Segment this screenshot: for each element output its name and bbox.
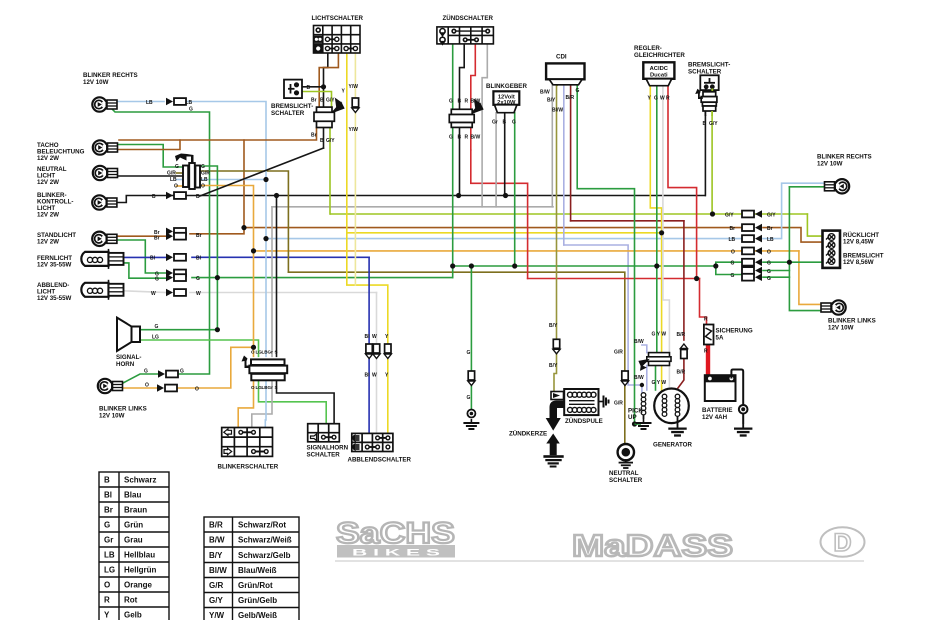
svg-text:BLINKER LINKS: BLINKER LINKS — [99, 406, 147, 413]
svg-text:G: G — [196, 276, 200, 282]
svg-text:G/Y: G/Y — [209, 596, 223, 605]
svg-text:SIGNALHORN: SIGNALHORN — [307, 445, 349, 452]
svg-text:B/W: B/W — [471, 99, 481, 105]
wire LB instrument link — [200, 179, 266, 181]
wire B/R cdi drop — [570, 85, 572, 221]
wire O instrument drop — [198, 186, 254, 357]
wire B/W cdi drop — [551, 85, 553, 207]
wire G double input — [716, 266, 742, 275]
wire W dimmer drop — [376, 293, 378, 434]
lamp blinker rechts left — [92, 97, 117, 111]
wire B/W zuendschalter drop — [482, 44, 487, 207]
svg-text:Schwarz/Weiß: Schwarz/Weiß — [238, 536, 292, 545]
svg-text:12V 8,56W: 12V 8,56W — [843, 259, 874, 266]
svg-text:Ducati: Ducati — [650, 73, 668, 79]
spark plug ZUENDKERZE — [543, 401, 564, 468]
svg-text:G: G — [467, 395, 471, 401]
svg-text:G: G — [189, 107, 193, 113]
svg-text:SIGNAL-: SIGNAL- — [116, 354, 141, 361]
connector BR inline — [680, 344, 687, 359]
svg-text:B/Y: B/Y — [549, 363, 558, 369]
wire B bremslicht-schalter left link — [302, 86, 324, 88]
connector G spark — [468, 371, 475, 386]
svg-text:R: R — [465, 99, 469, 105]
wire B/W generator connector riser — [642, 345, 647, 353]
connector pair Br double — [166, 228, 186, 236]
svg-text:Br: Br — [154, 236, 160, 242]
svg-text:G: G — [155, 277, 159, 283]
svg-text:LB: LB — [104, 551, 115, 560]
wire G cdi drop — [577, 85, 634, 424]
svg-text:Bl: Bl — [365, 373, 371, 379]
svg-text:LB: LB — [146, 100, 153, 106]
svg-text:REGLER-: REGLER- — [634, 45, 662, 52]
lamp tacho — [93, 140, 118, 154]
wire G/R instrument stub — [177, 172, 184, 174]
wire O blinker links riser — [177, 347, 254, 388]
svg-text:O: O — [195, 387, 199, 393]
wire Br brown standlicht segment — [110, 235, 166, 237]
svg-text:G: G — [731, 261, 735, 267]
svg-text:G: G — [180, 369, 184, 375]
lamp abblendlicht — [81, 280, 123, 300]
wire G regler drop — [656, 86, 658, 353]
svg-text:Bl: Bl — [196, 256, 202, 262]
wire Bl/W lavender run — [564, 245, 642, 392]
wire G fernlicht branch — [115, 263, 166, 278]
wire LB blinker rechts to riser — [182, 102, 266, 357]
wire O orange bus — [254, 250, 799, 252]
svg-text:ABBLENDSCHALTER: ABBLENDSCHALTER — [348, 457, 412, 464]
svg-text:LICHTSCHALTER: LICHTSCHALTER — [312, 15, 364, 22]
svg-text:LG: LG — [104, 566, 115, 575]
lamp blinker rechts right — [825, 179, 850, 193]
svg-text:G: G — [512, 120, 516, 126]
wire LB right riser to blinker rechts — [763, 183, 828, 238]
svg-text:SCHALTER: SCHALTER — [271, 110, 305, 117]
connector pair O right — [742, 247, 762, 255]
svg-text:S: S — [275, 385, 278, 390]
connector pair G double right — [742, 267, 762, 275]
wire LB instrument stub — [177, 179, 184, 181]
svg-text:G/Y: G/Y — [725, 213, 734, 219]
svg-text:BLINKERSCHALTER: BLINKERSCHALTER — [218, 464, 279, 471]
connector GR inline — [621, 371, 628, 386]
svg-text:Gelb: Gelb — [124, 611, 142, 620]
svg-text:G/Y: G/Y — [767, 213, 776, 219]
svg-text:12V 2W: 12V 2W — [37, 155, 59, 162]
svg-text:D: D — [833, 529, 851, 557]
wire black bremslicht-schalter right drop — [704, 116, 706, 196]
wire B relay drop — [276, 196, 278, 357]
wire Br brown bus right — [244, 227, 742, 229]
svg-text:B: B — [320, 98, 324, 104]
svg-text:B: B — [152, 194, 156, 200]
svg-text:12V 2W: 12V 2W — [37, 179, 59, 186]
wire G/Y bus — [331, 213, 808, 215]
connector pair GY right — [742, 210, 762, 218]
wire O relay to blinkerschalter — [238, 380, 253, 428]
legend table 1 — [99, 472, 169, 620]
wire Gr blinkgeber drop — [495, 113, 497, 207]
wire Gr relay drop — [271, 207, 273, 356]
svg-text:B/R: B/R — [677, 332, 686, 338]
connector pair G blinker links — [158, 370, 178, 378]
svg-text:NEUTRAL: NEUTRAL — [609, 470, 639, 477]
svg-text:B: B — [104, 476, 110, 485]
switch NEUTRAL SCHALTER — [618, 444, 634, 462]
wire G generator link — [655, 366, 657, 391]
wire LB blinker rechts line — [110, 101, 164, 103]
wire G/R olive riser — [198, 171, 288, 272]
connector YW inline — [352, 98, 359, 113]
svg-text:Bl: Bl — [104, 491, 112, 500]
relay BLINKGEBER box — [493, 91, 519, 112]
wire R thick fuse to battery — [706, 346, 710, 375]
svg-text:SICHERUNG: SICHERUNG — [716, 328, 753, 335]
svg-text:Bl: Bl — [365, 334, 371, 340]
svg-text:B/R: B/R — [209, 521, 223, 530]
svg-text:CDI: CDI — [556, 54, 567, 61]
svg-text:LB: LB — [186, 100, 193, 106]
ground spark green — [463, 419, 479, 429]
wire G blinkgeber drop — [514, 113, 516, 266]
connector pair O blinker links — [157, 384, 177, 392]
svg-text:B: B — [503, 120, 507, 126]
svg-text:ZÜNDKERZE: ZÜNDKERZE — [509, 431, 547, 438]
ground battery — [734, 424, 752, 436]
connector pair LB right — [742, 235, 762, 243]
wire G spark ground drop — [470, 266, 472, 371]
svg-text:LB: LB — [767, 237, 774, 243]
speaker signal horn — [117, 318, 140, 351]
svg-text:G: G — [731, 273, 735, 279]
ground neutral schalter — [619, 459, 633, 468]
wire LB bus — [266, 238, 742, 240]
wire code labels — [144, 84, 776, 407]
svg-text:G: G — [104, 521, 110, 530]
svg-text:O: O — [201, 184, 205, 190]
wire Br tacho stub — [110, 140, 180, 150]
svg-text:BLINKER RECHTS: BLINKER RECHTS — [817, 154, 872, 161]
svg-text:BREMSLICHT-: BREMSLICHT- — [688, 62, 730, 69]
svg-text:Schwarz/Rot: Schwarz/Rot — [238, 521, 286, 530]
svg-text:UP: UP — [628, 414, 637, 421]
wire G/Y brake switch link — [302, 92, 332, 108]
wire G/Y right tail drop — [807, 214, 822, 236]
wire B/R maroon bus — [571, 220, 684, 222]
connector pair G double — [166, 269, 186, 277]
svg-text:Gr: Gr — [268, 385, 274, 390]
svg-text:B/Y: B/Y — [547, 98, 556, 104]
svg-text:W: W — [151, 291, 156, 297]
svg-text:Blau: Blau — [124, 491, 141, 500]
svg-text:Orange: Orange — [124, 581, 153, 590]
svg-text:12V 10W: 12V 10W — [828, 325, 854, 332]
svg-text:Gelb/Weiß: Gelb/Weiß — [238, 611, 277, 620]
coil ZUENDSPULE — [551, 389, 599, 415]
wire G tacho line — [110, 145, 183, 168]
connector brake component — [314, 100, 344, 128]
svg-text:BREMSLICHT-: BREMSLICHT- — [271, 103, 313, 110]
svg-text:12V 10W: 12V 10W — [83, 79, 109, 86]
svg-text:Blau/Weiß: Blau/Weiß — [238, 566, 277, 575]
svg-text:B/W: B/W — [634, 339, 644, 345]
wire Br brown connector to bus — [190, 140, 244, 234]
svg-text:5A: 5A — [716, 335, 724, 342]
svg-text:12V 35-55W: 12V 35-55W — [37, 262, 72, 269]
wire B/R connector to generator — [678, 358, 684, 388]
svg-text:Rot: Rot — [124, 596, 138, 605]
wire G horn line — [140, 329, 217, 331]
wire R fuse drop — [700, 279, 707, 325]
wire gray B/W bus — [272, 206, 553, 208]
wire W regler drop — [663, 86, 670, 353]
wire B brake diagonal — [200, 148, 324, 196]
svg-text:BATTERIE: BATTERIE — [702, 407, 732, 414]
svg-text:ACIDC: ACIDC — [650, 66, 669, 72]
svg-text:G: G — [467, 350, 471, 356]
switch BREMSLICHT-SCHALTER left — [284, 80, 302, 99]
svg-text:R: R — [104, 596, 110, 605]
wire G zuendschalter drop — [452, 44, 454, 278]
svg-text:B: B — [458, 135, 462, 141]
svg-text:Br: Br — [767, 226, 773, 232]
lamp standlicht — [92, 232, 117, 246]
svg-text:LB: LB — [170, 177, 177, 183]
wire black main bus B — [110, 196, 705, 203]
svg-text:SCHALTER: SCHALTER — [307, 452, 341, 459]
svg-text:B: B — [307, 85, 311, 91]
connector pair W — [166, 289, 186, 297]
switch ZUENDSCHALTER — [437, 27, 494, 44]
wire Br lichtschalter drop — [319, 53, 338, 107]
svg-text:G/R: G/R — [201, 171, 210, 177]
svg-text:GENERATOR: GENERATOR — [653, 442, 692, 449]
svg-text:B: B — [458, 99, 462, 105]
wire Bl/W cdi drop — [563, 85, 565, 245]
lamp cluster ruecklicht bremslicht — [823, 231, 841, 268]
svg-text:Br: Br — [196, 233, 202, 239]
svg-text:G: G — [576, 88, 580, 94]
wire W generator link — [668, 366, 670, 394]
wire G/R olive bus — [288, 272, 624, 444]
svg-text:S: S — [275, 350, 278, 355]
svg-text:HORN: HORN — [116, 361, 135, 368]
wire G blinker rechts stub — [789, 186, 827, 188]
svg-text:B/W: B/W — [209, 536, 225, 545]
wire Y yellow bus — [347, 232, 662, 234]
wire B relay to horn switch — [277, 380, 335, 424]
svg-text:B/W: B/W — [471, 135, 481, 141]
svg-text:W: W — [372, 373, 377, 379]
svg-text:O: O — [251, 350, 255, 355]
connector zuendschalter component — [449, 101, 482, 128]
wire Bl blue bus — [192, 256, 369, 258]
svg-text:SCHALTER: SCHALTER — [609, 477, 643, 484]
connector instrument cluster — [175, 154, 200, 190]
svg-text:12V 10W: 12V 10W — [817, 161, 843, 168]
wire Br neutral stub — [112, 175, 183, 177]
svg-text:R: R — [704, 349, 708, 355]
wire B/W generator link — [646, 366, 648, 391]
svg-text:Gr: Gr — [268, 350, 274, 355]
legend table 2 — [204, 517, 299, 620]
svg-text:SCHALTER: SCHALTER — [688, 69, 722, 76]
wire G/Y bremslicht right drop — [712, 116, 713, 214]
pickup coil — [635, 393, 646, 424]
svg-text:Grün/Gelb: Grün/Gelb — [238, 596, 277, 605]
svg-text:B: B — [320, 138, 324, 144]
wire G tail light feed — [763, 261, 823, 263]
svg-text:B: B — [703, 121, 707, 127]
svg-text:O: O — [174, 184, 178, 190]
svg-text:G: G — [144, 369, 148, 375]
lamp blinker links right — [821, 300, 846, 314]
svg-text:Bl/W: Bl/W — [552, 108, 563, 114]
svg-text:LG: LG — [152, 335, 159, 341]
svg-text:Br: Br — [104, 506, 113, 515]
wire B/Y cdi drop — [557, 85, 558, 339]
svg-text:12V 2W: 12V 2W — [37, 212, 59, 219]
svg-text:12V 10W: 12V 10W — [99, 413, 125, 420]
svg-text:Schwarz: Schwarz — [124, 476, 156, 485]
svg-text:G: G — [767, 261, 771, 267]
svg-text:G: G — [449, 135, 453, 141]
svg-text:Y: Y — [104, 611, 110, 620]
svg-text:B/R: B/R — [677, 370, 686, 376]
svg-text:BLINKGEBER: BLINKGEBER — [486, 83, 527, 90]
relay blinker flasher block — [242, 356, 288, 381]
svg-text:Grau: Grau — [124, 536, 143, 545]
ground pickup — [636, 419, 652, 429]
svg-text:G/R: G/R — [614, 350, 623, 356]
svg-text:G Y W: G Y W — [652, 380, 667, 386]
wire G double lower right — [763, 276, 789, 278]
wire G tail light branch — [716, 262, 742, 266]
wire Br brake light horizontal — [119, 128, 317, 141]
svg-text:G: G — [767, 269, 771, 275]
wire LG horn line — [140, 340, 259, 356]
svg-text:B/W: B/W — [634, 375, 644, 381]
wire G instrument to horn — [198, 166, 217, 330]
svg-text:W: W — [372, 334, 377, 340]
wire B blinkgeber drop — [504, 113, 506, 196]
svg-text:BLINKER LINKS: BLINKER LINKS — [828, 318, 876, 325]
svg-text:O: O — [104, 581, 110, 590]
wire O right to blinker links — [799, 251, 823, 305]
wire O instrument stub — [177, 185, 184, 187]
svg-text:ZÜNDSCHALTER: ZÜNDSCHALTER — [443, 15, 494, 22]
svg-text:G/R: G/R — [209, 581, 223, 590]
wire G blinker rechts riser — [110, 107, 210, 374]
svg-text:G/Y: G/Y — [326, 138, 335, 144]
wire G blinker rechts right vertical — [789, 187, 823, 311]
labels component names — [37, 15, 884, 484]
wire B lichtschalter to brake comp — [324, 53, 328, 107]
svg-text:Br: Br — [730, 226, 736, 232]
lamp blinker links left — [98, 379, 123, 393]
wire B brake comp drop — [323, 128, 325, 149]
connector pair Bl — [166, 253, 186, 261]
svg-text:Hellblau: Hellblau — [124, 551, 155, 560]
svg-text:O: O — [731, 250, 735, 256]
svg-text:LB: LB — [729, 237, 736, 243]
wire R red bus — [528, 278, 700, 280]
ground generator — [668, 424, 686, 436]
svg-text:Y/W: Y/W — [349, 127, 359, 133]
generator — [654, 389, 689, 425]
svg-text:12V 8,45W: 12V 8,45W — [843, 239, 874, 246]
svg-text:12V 2W: 12V 2W — [37, 239, 59, 246]
svg-text:B/W: B/W — [540, 90, 550, 96]
battery BATTERIE — [705, 370, 748, 425]
svg-text:Bl: Bl — [150, 256, 156, 262]
wire G/Y brake comp drop — [329, 128, 331, 215]
connector pair B bus — [166, 192, 186, 200]
svg-text:G Y W: G Y W — [652, 332, 667, 338]
svg-text:G: G — [449, 99, 453, 105]
svg-text:R: R — [465, 135, 469, 141]
switch LICHTSCHALTER — [314, 26, 361, 54]
wire B/Y to coil — [552, 354, 557, 395]
svg-text:R: R — [704, 317, 708, 323]
wire G spark ground lower — [470, 386, 472, 410]
svg-text:G/Y: G/Y — [709, 121, 718, 127]
switch SIGNALHORN SCHALTER — [308, 424, 340, 442]
wire Y/W lichtschalter drop — [354, 53, 356, 285]
svg-text:Hellgrün: Hellgrün — [124, 566, 157, 575]
svg-text:G: G — [767, 276, 771, 282]
svg-text:R: R — [666, 96, 670, 102]
svg-text:Br: Br — [311, 133, 317, 139]
lamp neutral — [93, 166, 118, 180]
wire Bl fernlicht stub — [115, 256, 166, 258]
logo D oval — [821, 527, 865, 557]
wire Y generator link — [661, 366, 663, 394]
svg-text:B: B — [196, 194, 200, 200]
svg-text:G: G — [175, 164, 179, 170]
svg-text:Grün/Rot: Grün/Rot — [238, 581, 273, 590]
svg-text:GLEICHRICHTER: GLEICHRICHTER — [634, 52, 685, 59]
connector pair G right — [742, 258, 762, 266]
svg-text:B/Y: B/Y — [549, 323, 558, 329]
wire LB relay to blinkerschalter — [264, 380, 267, 428]
svg-text:G/R: G/R — [614, 401, 623, 407]
svg-text:Gr: Gr — [104, 536, 113, 545]
svg-text:O: O — [251, 385, 255, 390]
svg-text:O: O — [767, 250, 771, 256]
svg-text:Braun: Braun — [124, 506, 147, 515]
svg-text:G: G — [201, 164, 205, 170]
wire Br brown right to tail lamp — [763, 228, 823, 243]
svg-text:LB: LB — [201, 177, 208, 183]
connector Bl dimmer — [366, 344, 373, 359]
wire G green main bus — [453, 265, 716, 267]
wire Y lichtschalter drop — [346, 53, 348, 233]
logo underline — [335, 560, 864, 562]
svg-text:ZÜNDSPULE: ZÜNDSPULE — [565, 418, 603, 425]
svg-text:Y/W: Y/W — [349, 84, 359, 90]
wire W abblend stub — [115, 291, 166, 293]
wire W white bus — [190, 292, 377, 294]
connector pair LB blinker rechts — [166, 98, 186, 106]
svg-text:B/Y: B/Y — [209, 551, 223, 560]
svg-text:12V 4AH: 12V 4AH — [702, 414, 728, 421]
svg-text:G/Y: G/Y — [326, 98, 335, 104]
connector BY inline — [553, 339, 560, 354]
svg-text:O: O — [145, 383, 149, 389]
